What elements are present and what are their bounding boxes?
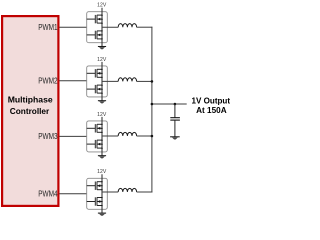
controller title text (8, 95, 53, 116)
wire switch node to inductor (phase 1) (102, 26, 118, 28)
transistor Q3H high-side (N-MOSFET) (87, 124, 103, 134)
transistor Q1H high-side (N-MOSFET) (87, 14, 103, 24)
inductor L3 (118, 132, 136, 136)
inductor L4 (118, 188, 136, 192)
svg-text:Multiphase: Multiphase (8, 95, 53, 105)
wire output node (152, 103, 187, 105)
multiphase controller block (2, 16, 58, 206)
power stage box U4 (87, 178, 108, 209)
wire inductor L4 to output bus (137, 191, 153, 193)
wire 12V lead / drain-source conductor (phase 4) (101, 174, 103, 213)
wire PWM3 from controller to gate driver (59, 135, 86, 137)
wire output bus (vertical) (151, 27, 153, 193)
ground symbol (phase 3 power stage) (98, 156, 106, 159)
inductor L2 (118, 78, 136, 82)
power stage box U2 (87, 66, 108, 97)
wire inductor L3 to output bus (137, 135, 153, 137)
power stage box U1 (87, 12, 108, 43)
transistor Q3L low-side (N-MOSFET) (87, 139, 103, 149)
svg-text:PWM4: PWM4 (38, 189, 58, 198)
ground symbol (phase 4 power stage) (98, 213, 106, 216)
transistor Q2H high-side (N-MOSFET) (87, 69, 103, 79)
wire 12V lead / drain-source conductor (phase 2) (101, 62, 103, 101)
capacitor C1 output filter (170, 104, 180, 137)
ground symbol (output capacitor) (170, 137, 180, 140)
junction node phase 3 on bus (151, 135, 154, 138)
wire switch node to inductor (phase 2) (102, 80, 118, 82)
transistor Q4L low-side (N-MOSFET) (87, 197, 103, 207)
transistor Q4H high-side (N-MOSFET) (87, 181, 103, 191)
wire PWM4 from controller to gate driver (59, 193, 86, 195)
transistor Q1L low-side (N-MOSFET) (87, 30, 103, 40)
svg-text:PWM3: PWM3 (38, 132, 58, 141)
transistor Q2L low-side (N-MOSFET) (87, 84, 103, 94)
svg-text:At 150A: At 150A (196, 105, 227, 115)
wire 12V lead / drain-source conductor (phase 1) (101, 8, 103, 47)
wire 12V lead / drain-source conductor (phase 3) (101, 117, 103, 156)
svg-text:PWM2: PWM2 (38, 76, 58, 85)
wire switch node to inductor (phase 3) (102, 135, 118, 137)
ground symbol (phase 2 power stage) (98, 101, 106, 104)
svg-text:Controller: Controller (10, 106, 50, 116)
junction node phase 2 on bus (151, 80, 154, 83)
inductor L1 (118, 24, 136, 28)
wire PWM1 from controller to gate driver (59, 26, 86, 28)
wire PWM2 from controller to gate driver (59, 80, 86, 82)
wire switch node to inductor (phase 4) (102, 191, 118, 193)
svg-text:1V Output: 1V Output (192, 95, 231, 105)
wire inductor L1 to output bus (137, 26, 153, 28)
wire inductor L2 to output bus (137, 80, 153, 82)
junction node capacitor tap (174, 103, 177, 106)
junction node output tap on bus (151, 103, 154, 106)
power stage box U3 (87, 121, 108, 152)
svg-text:PWM1: PWM1 (38, 23, 58, 32)
ground symbol (phase 1 power stage) (98, 47, 106, 50)
svg-text:12V: 12V (97, 57, 107, 63)
label output net 1V/150A (192, 95, 231, 115)
